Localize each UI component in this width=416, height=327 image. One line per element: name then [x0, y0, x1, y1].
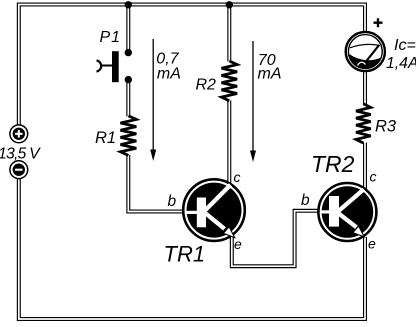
- wire: top bus + left rail + meter feed: [19, 5, 365, 126]
- svg-text:c: c: [370, 169, 377, 185]
- svg-text:R2: R2: [196, 77, 217, 94]
- svg-text:TR1: TR1: [164, 242, 206, 267]
- wire: left rail lower + bottom bus + TR2 emitter drop: [19, 178, 365, 319]
- svg-text:b: b: [301, 192, 310, 209]
- resistor R2: [222, 61, 238, 101]
- node: junction of top bus and P1 branch: [125, 1, 132, 8]
- svg-text:e: e: [368, 236, 376, 252]
- svg-text:c: c: [234, 169, 241, 185]
- svg-text:1,4A: 1,4A: [386, 55, 416, 72]
- current arrow 70 mA: [250, 41, 256, 162]
- svg-text:e: e: [234, 236, 242, 252]
- svg-text:mA: mA: [258, 66, 282, 83]
- wire: top bus to resistor R2: [227, 5, 231, 62]
- svg-text:R3: R3: [375, 118, 397, 136]
- transistor TR2: [318, 183, 376, 241]
- svg-text:13,5 V: 13,5 V: [0, 146, 41, 163]
- svg-text:P1: P1: [100, 29, 122, 46]
- resistor R1: [121, 116, 137, 156]
- resistor R3: [356, 104, 371, 143]
- value label 70 mA: [258, 52, 282, 83]
- meter polarity +: [374, 18, 383, 27]
- wire: switch P1 to resistor R1: [126, 83, 130, 117]
- battery positive terminal: [10, 125, 28, 143]
- value label 0,7 mA: [156, 51, 181, 83]
- svg-text:TR2: TR2: [311, 151, 355, 177]
- ammeter M1: [346, 32, 385, 71]
- svg-text:b: b: [168, 193, 177, 210]
- transistor TR1: [183, 179, 245, 241]
- node: junction of top bus and R2 branch: [226, 1, 233, 8]
- wire: resistor R3 to TR2 collector: [363, 143, 367, 189]
- svg-text:Ic=: Ic=: [394, 37, 416, 54]
- wire: top bus to switch P1: [126, 5, 130, 51]
- wire: TR1 emitter to TR2 base: [232, 211, 318, 266]
- wire: resistor R2 to TR1 collector: [227, 101, 231, 185]
- current arrow 0,7 mA: [150, 39, 156, 161]
- svg-text:R1: R1: [95, 129, 116, 147]
- wire: meter to resistor R3: [363, 71, 367, 105]
- wire: resistor R1 to TR1 base: [128, 155, 183, 212]
- push button P1: [97, 49, 133, 83]
- svg-text:mA: mA: [157, 66, 181, 83]
- battery negative terminal: [10, 161, 28, 179]
